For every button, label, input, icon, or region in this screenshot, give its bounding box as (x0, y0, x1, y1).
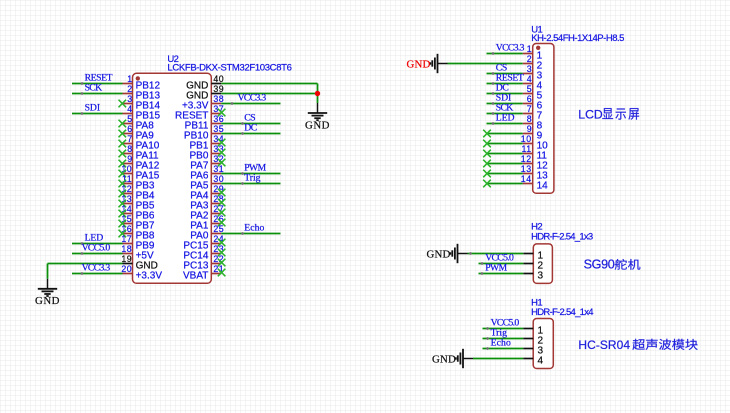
U2 pin 39 (GND) stub (211, 93, 221, 95)
U2 pin 12 no-connect X (119, 190, 127, 198)
U1 pin 10 no-connect X (483, 140, 491, 148)
U1 pin 11 unconnected stub wire (487, 153, 523, 155)
wire net Trig at U2 pin 30 (221, 183, 280, 185)
U2 pin 5 no-connect X (119, 120, 127, 128)
svg-text:17: 17 (121, 234, 132, 244)
svg-text:4: 4 (538, 355, 544, 366)
connector U1 pin-1 marker dot (536, 46, 540, 50)
ground flag at U1 pin 2 (430, 54, 447, 73)
wire net GND at H1 pin 4 (473, 358, 523, 360)
U2 pin 22 no-connect X (218, 259, 226, 267)
wire net Trig at H1 pin 2 (483, 338, 524, 340)
svg-text:7: 7 (527, 104, 532, 114)
U1 pin 2 stub (523, 63, 533, 65)
U1 pin 9 no-connect X (483, 130, 491, 138)
svg-text:1: 1 (527, 44, 532, 54)
wire net SCK at U1 pin 7 (487, 113, 523, 115)
connector H1 body (533, 319, 553, 369)
U1 pin 10 stub (523, 143, 533, 145)
wire net GND at U1 pin 2 (447, 63, 522, 65)
net label CS anchor dot (492, 72, 495, 75)
H2 pin 3 stub (523, 273, 533, 275)
svg-text:3: 3 (527, 64, 532, 74)
svg-text:3: 3 (538, 270, 544, 281)
net label SDI anchor dot (492, 102, 495, 105)
wire net Echo at U2 pin 25 (221, 233, 280, 235)
wire net VCC3.3 at U2 pin 38 (221, 103, 280, 105)
wire net VCC5.0 at H2 pin 2 (479, 263, 524, 265)
wire net GND from U2 pin 39 (221, 93, 317, 95)
wire net GND from U2 pin 40 (221, 83, 317, 85)
U2 pin 12 (PB4) stub (123, 193, 133, 195)
U1 pin 9 unconnected stub wire (487, 133, 523, 135)
svg-text:2: 2 (527, 54, 532, 64)
H1 pin 3 stub (523, 348, 533, 350)
U1 pin 11 stub (523, 153, 533, 155)
net label LED anchor dot (81, 242, 84, 245)
net label VCC5.0 anchor dot (486, 327, 489, 330)
net label VCC5.0 anchor dot (481, 262, 484, 265)
U2 pin 22 (PC13) stub (211, 263, 221, 265)
U2 pin 3 no-connect X (119, 100, 127, 108)
ground flag at H2 pin 1 (450, 244, 467, 263)
svg-text:5: 5 (127, 114, 132, 124)
svg-text:6: 6 (127, 124, 132, 134)
net label DC anchor dot (241, 132, 244, 135)
connector H2 body (533, 244, 552, 284)
U1 pin 12 stub (523, 163, 533, 165)
svg-text:GND: GND (305, 119, 330, 131)
svg-text:7: 7 (127, 134, 132, 144)
svg-text:GND: GND (407, 58, 431, 70)
wire net CS at U2 pin 36 (221, 123, 280, 125)
wire net DC at U2 pin 35 (221, 133, 280, 135)
svg-text:SDI: SDI (85, 103, 100, 114)
svg-text:14: 14 (537, 180, 549, 191)
svg-text:PWM: PWM (485, 263, 507, 274)
wire net LED at U1 pin 8 (487, 123, 523, 125)
wire net RESET at U2 pin 1 (72, 83, 123, 85)
U1 pin 7 stub (523, 113, 533, 115)
H1 pin 4 stub (523, 358, 533, 360)
svg-text:Echo: Echo (244, 223, 264, 234)
svg-text:18: 18 (121, 244, 132, 254)
U2 pin 6 no-connect X (119, 130, 127, 138)
svg-text:19: 19 (121, 254, 132, 264)
U2 pin 16 no-connect X (119, 230, 127, 238)
wire net LED at U2 pin 17 (72, 243, 123, 245)
U1 pin 14 unconnected stub wire (487, 183, 523, 185)
wire net SDI at U2 pin 4 (72, 113, 123, 115)
wire net CS at U1 pin 3 (487, 73, 523, 75)
wire net VCC5.0 at H1 pin 1 (483, 328, 524, 330)
net label Trig anchor dot (486, 337, 489, 340)
svg-text:SCK: SCK (85, 83, 102, 94)
H1 pin 1 stub (523, 328, 533, 330)
svg-text:DC: DC (244, 123, 257, 134)
wire net GND from U2 pin 19 to ground (48, 263, 123, 265)
wire net VCC3.3 at U2 pin 20 (72, 273, 123, 275)
annotation text xian-shi-ping (602, 108, 613, 119)
U2 pin 11 no-connect X (119, 180, 127, 188)
svg-text:1: 1 (127, 74, 132, 84)
net label VCC3.3 anchor dot (231, 102, 234, 105)
U1 pin 14 stub (523, 183, 533, 185)
svg-text:5: 5 (527, 84, 532, 94)
svg-text:4: 4 (127, 104, 132, 114)
U1 pin 13 stub (523, 173, 533, 175)
wire net GND at H2 pin 1 (468, 253, 524, 255)
svg-text:GND: GND (432, 353, 456, 365)
U2 pin 40 (GND) stub (211, 83, 221, 85)
svg-text:SG90: SG90 (584, 258, 615, 272)
svg-text:8: 8 (527, 114, 532, 124)
U2 pin 27 (PA2) stub (211, 213, 221, 215)
U2 pin 28 (PA3) stub (211, 203, 221, 205)
net label SCK anchor dot (492, 112, 495, 115)
U2 pin 23 (PC14) stub (211, 253, 221, 255)
U1 pin 5 stub (523, 93, 533, 95)
U2 pin 1 (PB12) stub (123, 83, 133, 85)
U2 pin 32 no-connect X (218, 159, 226, 167)
U2 pin 13 (PB5) stub (123, 203, 133, 205)
U2 pin 23 no-connect X (218, 249, 226, 257)
U2 pin 25 (PA0) stub (211, 233, 221, 235)
U2 pin 2 (PB13) stub (123, 93, 133, 95)
net label VCC5.0 anchor dot (81, 252, 84, 255)
svg-text:9: 9 (527, 124, 532, 134)
U2 pin 7 (PA10) stub (123, 143, 133, 145)
U2 pin 37 (RESET) stub (211, 113, 221, 115)
U2 pin 4 (PB15) stub (123, 113, 133, 115)
annotation text duo-ji (615, 259, 627, 270)
svg-text:VCC3.3: VCC3.3 (238, 93, 267, 104)
svg-text:VBAT: VBAT (183, 270, 208, 281)
svg-text:10: 10 (521, 134, 532, 144)
svg-text:39: 39 (213, 84, 224, 94)
svg-text:25: 25 (213, 224, 224, 234)
wire net SDI at U1 pin 6 (487, 103, 523, 105)
net label Echo anchor dot (241, 232, 244, 235)
wire net VCC5.0 at U2 pin 18 (72, 253, 123, 255)
svg-text:GND: GND (427, 248, 451, 260)
U1 pin 11 no-connect X (483, 150, 491, 158)
svg-text:2: 2 (127, 84, 132, 94)
svg-text:40: 40 (213, 74, 224, 84)
junction dot net GND (315, 91, 320, 96)
svg-text:Trig: Trig (244, 173, 260, 184)
svg-text:31: 31 (213, 164, 224, 174)
wire net VCC3.3 at U1 pin 1 (487, 53, 523, 55)
U2 pin 35 (PB10) stub (211, 133, 221, 135)
wire net PWM at U2 pin 31 (221, 173, 280, 175)
svg-text:11: 11 (521, 144, 531, 154)
net label VCC3.3 anchor dot (81, 272, 84, 275)
net label SCK anchor dot (81, 92, 84, 95)
net label SDI anchor dot (81, 112, 84, 115)
svg-text:9: 9 (127, 154, 132, 164)
net label DC anchor dot (492, 92, 495, 95)
svg-text:VCC5.0: VCC5.0 (82, 243, 111, 254)
svg-text:20: 20 (121, 264, 132, 274)
U2 pin 26 (PA1) stub (211, 223, 221, 225)
svg-text:12: 12 (521, 154, 532, 164)
U2 pin 9 (PA12) stub (123, 163, 133, 165)
U1 pin 1 stub (523, 53, 533, 55)
svg-text:VCC3.3: VCC3.3 (496, 43, 525, 54)
connector U1 body (533, 44, 554, 194)
wire net Echo at H1 pin 3 (483, 348, 524, 350)
svg-text:8: 8 (127, 144, 132, 154)
U2 pin 7 no-connect X (119, 140, 127, 148)
U2 pin 34 (PB1) stub (211, 143, 221, 145)
U2 pin 29 (PA4) stub (211, 193, 221, 195)
U2 pin 26 no-connect X (218, 219, 226, 227)
U1 pin 9 stub (523, 133, 533, 135)
U2 pin 10 no-connect X (119, 170, 127, 178)
U2 pin 28 no-connect X (218, 199, 226, 207)
wire net PWM at H2 pin 3 (479, 273, 524, 275)
svg-text:GND: GND (35, 295, 60, 307)
U1 pin 12 unconnected stub wire (487, 163, 523, 165)
svg-text:HC-SR04: HC-SR04 (578, 338, 630, 352)
svg-text:14: 14 (521, 174, 532, 184)
U1 pin 10 unconnected stub wire (487, 143, 523, 145)
U2 pin 10 (PA15) stub (123, 173, 133, 175)
U2 pin 32 (PA7) stub (211, 163, 221, 165)
ground flag below U2 pin 19 (38, 279, 57, 296)
U2 pin 8 no-connect X (119, 150, 127, 158)
U1 pin 13 unconnected stub wire (487, 173, 523, 175)
U2 pin 24 no-connect X (218, 239, 226, 247)
net label LED anchor dot (492, 122, 495, 125)
svg-text:Echo: Echo (491, 338, 511, 349)
H1 pin 2 stub (523, 338, 533, 340)
svg-text:VCC3.3: VCC3.3 (82, 263, 111, 274)
net label Trig anchor dot (241, 182, 244, 185)
net label VCC3.3 anchor dot (492, 52, 495, 55)
U2 pin 15 no-connect X (119, 220, 127, 228)
U2 pin 29 no-connect X (218, 189, 226, 197)
net label PWM anchor dot (481, 272, 484, 275)
ic U2 body (133, 73, 212, 283)
U2 pin 3 (PB14) stub (123, 103, 133, 105)
U2 pin 5 (PA8) stub (123, 123, 133, 125)
svg-text:LCD: LCD (578, 108, 603, 122)
net label Echo anchor dot (486, 347, 489, 350)
U2 pin 8 (PA11) stub (123, 153, 133, 155)
svg-text:KH-2.54FH-1X14P-H8.5: KH-2.54FH-1X14P-H8.5 (531, 33, 624, 44)
svg-text:6: 6 (527, 94, 532, 104)
svg-text:+3.3V: +3.3V (136, 270, 163, 281)
U1 pin 6 stub (523, 103, 533, 105)
U2 pin 36 (PB11) stub (211, 123, 221, 125)
svg-text:LED: LED (496, 113, 515, 124)
U2 pin 38 (+3.3V) stub (211, 103, 221, 105)
U1 pin 13 no-connect X (483, 170, 491, 178)
net label CS anchor dot (241, 122, 244, 125)
ic U2 pin-1 marker dot (136, 76, 140, 80)
U1 pin 4 stub (523, 83, 533, 85)
svg-text:LCKFB-DKX-STM32F103C8T6: LCKFB-DKX-STM32F103C8T6 (167, 63, 291, 74)
svg-text:30: 30 (213, 174, 224, 184)
U2 pin 20 (+3.3V) stub (123, 273, 133, 275)
net GND anchor dot on H2 pin 1 wire (469, 252, 472, 255)
wire net RESET at U1 pin 4 (487, 83, 523, 85)
U2 pin 18 (+5V) stub (123, 253, 133, 255)
U2 pin 19 (GND) stub (123, 263, 133, 265)
U2 pin 37 no-connect X (218, 109, 226, 117)
U2 pin 27 no-connect X (218, 209, 226, 217)
svg-text:38: 38 (213, 94, 224, 104)
ground flag at H1 pin 4 (456, 349, 473, 368)
U2 pin 13 no-connect X (119, 200, 127, 208)
svg-text:4: 4 (527, 74, 532, 84)
annotation text chao-sheng-bo-mo-kuai (632, 339, 644, 350)
U2 pin 14 no-connect X (119, 210, 127, 218)
H2 pin 1 stub (523, 253, 533, 255)
net label PWM anchor dot (241, 172, 244, 175)
U2 pin 9 no-connect X (119, 160, 127, 168)
U2 pin 33 no-connect X (218, 149, 226, 157)
svg-text:36: 36 (213, 114, 224, 124)
U2 pin 24 (PC15) stub (211, 243, 221, 245)
U1 pin 14 no-connect X (483, 180, 491, 188)
U2 pin 33 (PB0) stub (211, 153, 221, 155)
U2 pin 30 (PA5) stub (211, 183, 221, 185)
net label RESET anchor dot (492, 82, 495, 85)
svg-text:35: 35 (213, 124, 224, 134)
U2 pin 11 (PB3) stub (123, 183, 133, 185)
svg-text:HDR-F-2.54_1x3: HDR-F-2.54_1x3 (531, 231, 593, 242)
U2 pin 21 (VBAT) stub (211, 273, 221, 275)
ground flag right of U2 (308, 103, 327, 120)
svg-text:13: 13 (521, 164, 532, 174)
net label RESET anchor dot (81, 82, 84, 85)
U2 pin 21 no-connect X (218, 269, 226, 277)
wire net DC at U1 pin 5 (487, 93, 523, 95)
U2 pin 15 (PB7) stub (123, 223, 133, 225)
U2 pin 16 (PB8) stub (123, 233, 133, 235)
svg-text:3: 3 (127, 94, 132, 104)
U2 pin 34 no-connect X (218, 139, 226, 147)
U2 pin 17 (PB9) stub (123, 243, 133, 245)
svg-text:HDR-F-2.54_1x4: HDR-F-2.54_1x4 (531, 307, 593, 318)
U2 pin 31 (PA6) stub (211, 173, 221, 175)
U2 pin 14 (PB6) stub (123, 213, 133, 215)
wire net SCK at U2 pin 2 (72, 93, 123, 95)
U1 pin 3 stub (523, 73, 533, 75)
H2 pin 2 stub (523, 263, 533, 265)
U1 pin 12 no-connect X (483, 160, 491, 168)
U2 pin 6 (PA9) stub (123, 133, 133, 135)
U1 pin 8 stub (523, 123, 533, 125)
